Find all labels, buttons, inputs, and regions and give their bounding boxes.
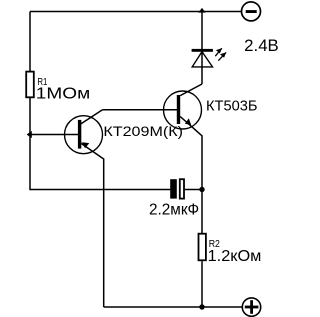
svg-text:КТ503Б: КТ503Б xyxy=(206,99,258,115)
capacitor value label 2.2мкФ xyxy=(149,202,199,219)
node junction dot capacitor / emitter / R2 xyxy=(199,187,204,192)
battery plus terminal xyxy=(242,298,260,316)
svg-text:2.4В: 2.4В xyxy=(244,36,279,55)
svg-text:1.2кОм: 1.2кОм xyxy=(208,248,262,265)
wire left rail down and along bottom-left to capacitor xyxy=(30,12,171,190)
node junction dot bottom rail / R2 xyxy=(199,304,204,309)
capacitor C1 right plate (hollow) xyxy=(180,179,184,198)
svg-text:2.2мкФ: 2.2мкФ xyxy=(149,202,199,219)
LED cathode bar xyxy=(192,49,213,52)
wire from R2 down to bottom rail xyxy=(201,261,203,307)
resistor R1 designator label xyxy=(37,77,47,88)
wire from PNP collector to NPN base xyxy=(103,109,178,111)
resistor R2 designator label xyxy=(209,239,220,250)
svg-text:КТ209М(К): КТ209М(К) xyxy=(103,124,183,139)
wire LED branch vertical from top rail to NPN collector xyxy=(201,12,203,85)
resistor R1 body xyxy=(26,72,34,98)
LED light emission arrow 2 xyxy=(218,52,226,60)
node arrow junction at top rail / LED branch xyxy=(198,8,205,13)
transistor Q1 label КТ209М(К) xyxy=(103,124,183,139)
battery voltage label 2.4В xyxy=(244,36,279,55)
transistor Q1 КТ209М(К) PNP xyxy=(65,110,104,307)
battery minus terminal xyxy=(242,2,261,21)
wire from junction down to R2 xyxy=(201,190,203,234)
transistor Q2 КТ503Б NPN xyxy=(164,84,203,190)
resistor R2 body xyxy=(199,234,206,261)
resistor R2 value label 1.2кОм xyxy=(208,248,262,265)
transistor Q2 label КТ503Б xyxy=(206,99,258,115)
LED light emission arrow 1 xyxy=(215,48,222,56)
node arrow junction at PNP base / left rail xyxy=(27,131,32,138)
svg-text:1МОм: 1МОм xyxy=(36,86,90,103)
wire bottom rail to battery plus xyxy=(104,306,242,308)
wire top rail from left rail to battery minus xyxy=(30,11,242,13)
capacitor C1 left plate (filled) xyxy=(170,179,177,198)
wire PNP base lead xyxy=(30,134,78,136)
LED diode triangle xyxy=(192,52,212,67)
wire capacitor right plate to emitter rail xyxy=(185,189,202,191)
resistor R1 value label 1МОм xyxy=(36,86,90,103)
